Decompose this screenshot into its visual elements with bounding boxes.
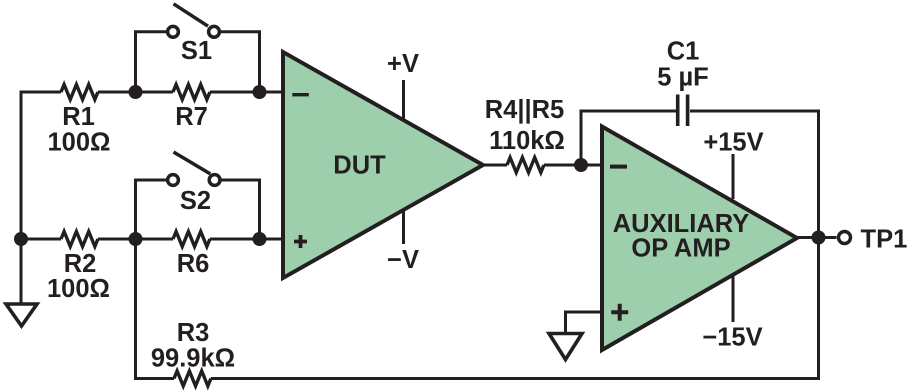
svg-text:OP AMP: OP AMP: [631, 235, 730, 263]
svg-text:S2: S2: [180, 187, 211, 215]
switch S2 left contact: [168, 175, 179, 186]
svg-text:100Ω: 100Ω: [48, 129, 111, 157]
svg-text:R6: R6: [177, 250, 210, 278]
wire auxiliary noninverting input to ground: [566, 312, 604, 334]
svg-text:5 µF: 5 µF: [657, 64, 709, 92]
svg-text:S1: S1: [181, 37, 212, 65]
svg-text:110kΩ: 110kΩ: [489, 127, 565, 155]
svg-text:R3: R3: [177, 319, 210, 347]
wire feedback: mid vertical down and bottom left segment: [136, 239, 175, 379]
wire from R6 to DUT noninverting input: [210, 238, 284, 241]
switch S1 right contact: [209, 26, 220, 37]
node junction R7-DUT: [253, 85, 267, 99]
DUT plus input symbol: [294, 235, 307, 248]
svg-text:R4||R5: R4||R5: [485, 96, 564, 124]
node junction left rail R2: [14, 232, 28, 246]
wire S2 loop right side: [222, 180, 260, 238]
node output junction: [812, 231, 826, 245]
switch S1 left contact: [168, 26, 179, 37]
resistor R2: [61, 232, 98, 247]
auxiliary minus input symbol: [610, 165, 627, 169]
resistor R6: [173, 232, 210, 247]
wire between R1 and R7: [98, 91, 173, 94]
node summing junction: [574, 158, 588, 172]
svg-text:TP1: TP1: [861, 226, 908, 254]
svg-text:R1: R1: [62, 103, 95, 131]
wire between R2 and R6: [98, 238, 173, 241]
auxiliary +15V supply stub: [732, 154, 735, 199]
wire from summing node up to C1: [581, 111, 676, 165]
node junction R2-R6: [129, 232, 143, 246]
ground left: [6, 304, 37, 326]
svg-text:+15V: +15V: [703, 129, 763, 157]
wire S2 loop left side: [136, 180, 167, 238]
node junction R1-R7: [129, 85, 143, 99]
op-amp DUT: [283, 52, 483, 278]
svg-text:100Ω: 100Ω: [47, 275, 110, 303]
node junction R6-DUT: [253, 232, 267, 246]
svg-text:C1: C1: [667, 38, 700, 66]
capacitor C1 left plate: [676, 95, 680, 127]
DUT +V supply stub: [402, 80, 405, 121]
DUT -V supply stub: [402, 210, 405, 244]
wire from R4R5 to auxiliary inverting input: [544, 164, 603, 167]
svg-text:99.9kΩ: 99.9kΩ: [151, 345, 235, 373]
wire top input line left segment: [20, 91, 62, 94]
wire DUT output to R4R5: [481, 164, 507, 167]
wire left vertical rail: [20, 91, 23, 305]
wire S1 loop left side: [136, 32, 167, 91]
auxiliary plus input symbol: [611, 304, 628, 321]
DUT minus input symbol: [292, 93, 309, 96]
svg-text:R2: R2: [64, 250, 97, 278]
switch S2 lever: [174, 152, 211, 174]
svg-text:R7: R7: [175, 103, 208, 131]
wire bottom run, right vertical rail and top right segment: [211, 111, 819, 379]
resistor R1: [61, 85, 98, 100]
op-amp U1 auxiliary: [602, 127, 797, 351]
wire noninverting line left segment: [20, 238, 62, 241]
svg-text:+V: +V: [387, 50, 419, 78]
terminal TP1 circle: [839, 232, 851, 244]
wire auxiliary output to TP1: [797, 236, 837, 239]
capacitor C1 right plate: [686, 95, 690, 127]
wire S1 loop right side: [221, 32, 260, 91]
auxiliary -15V supply stub: [732, 276, 735, 323]
switch S2 right contact: [209, 175, 220, 186]
svg-text:−15V: −15V: [702, 324, 762, 352]
resistor R7: [173, 85, 210, 100]
svg-text:−V: −V: [387, 246, 419, 274]
resistor R3: [174, 371, 211, 386]
resistor R4||R5: [507, 158, 544, 173]
ground auxiliary: [549, 334, 582, 360]
svg-text:DUT: DUT: [333, 152, 386, 180]
switch S1 lever: [174, 4, 209, 26]
wire from R7 to DUT inverting input: [210, 91, 284, 94]
